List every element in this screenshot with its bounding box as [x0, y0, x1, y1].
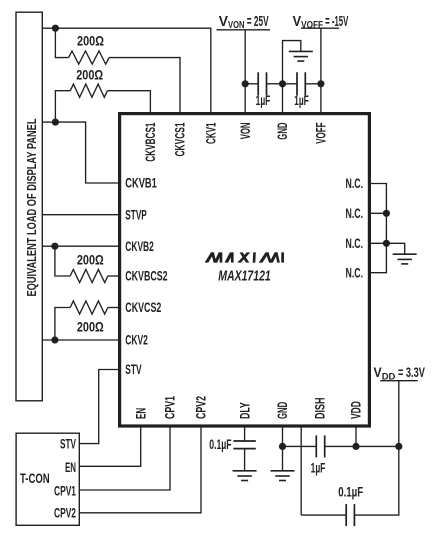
svg-text:CPV2: CPV2: [54, 506, 76, 521]
wire panel to junction CKVB1: [42, 121, 55, 123]
resistor R3 200ohm: [70, 269, 108, 282]
node junction CKVB2 net: [51, 243, 58, 250]
node VDD supply net: [395, 443, 402, 450]
VVDD underline: [380, 380, 418, 382]
svg-text:DISH: DISH: [312, 398, 327, 420]
ground (N.C. bus): [393, 254, 417, 264]
wire GND to top ground: [283, 41, 301, 84]
svg-text:= 25V: = 25V: [245, 14, 269, 30]
svg-text:CPV1: CPV1: [54, 483, 76, 498]
capacitor C2 1uF: [297, 72, 305, 95]
VVON underline: [216, 29, 270, 31]
VVOFF underline: [301, 27, 339, 29]
capacitor C4 1uF: [316, 435, 324, 457]
wire C3 to ground: [244, 449, 246, 471]
wire panel to CKV1 (top): [42, 28, 211, 113]
wire junction to CKVB1 pin: [55, 122, 119, 183]
svg-text:EN: EN: [65, 460, 76, 475]
wire CPV2 pin to T-CON: [79, 426, 201, 513]
node junction CKVB1 net: [52, 119, 59, 126]
capacitor C1 1uF: [258, 72, 266, 95]
svg-text:VON: VON: [238, 123, 253, 140]
wire R4 left lead to junction: [55, 308, 70, 341]
svg-text:1µF: 1µF: [294, 93, 309, 108]
svg-text:V: V: [374, 365, 382, 380]
wire CPV1 pin to T-CON: [79, 426, 170, 490]
svg-text:CKVBCS1: CKVBCS1: [143, 122, 158, 161]
node GND top net: [279, 80, 286, 87]
wire VDD supply down: [398, 381, 400, 447]
node junction CKV2 net: [51, 336, 58, 343]
ground (DLY): [233, 471, 257, 481]
svg-text:200Ω: 200Ω: [76, 68, 103, 83]
resistor R1 200ohm: [69, 51, 110, 64]
wire VDD pin stub: [355, 426, 357, 446]
svg-text:VOFF: VOFF: [314, 123, 329, 144]
svg-text:200Ω: 200Ω: [77, 252, 104, 267]
svg-text:N.C.: N.C.: [346, 176, 364, 191]
wire N.C. 3 stub: [369, 242, 386, 244]
wire C5 to VDD supply: [354, 446, 398, 515]
svg-text:V: V: [293, 14, 302, 30]
wire GND pin stub (bottom): [282, 426, 284, 446]
wire DISH pin down: [300, 426, 302, 515]
svg-text:STV: STV: [60, 436, 76, 451]
svg-text:200Ω: 200Ω: [77, 319, 104, 334]
svg-text:CKVB1: CKVB1: [125, 176, 157, 191]
wire C2 to VOFF node: [305, 83, 321, 85]
node VOFF net: [317, 80, 324, 87]
svg-text:VOFF: VOFF: [301, 20, 323, 31]
svg-text:CKVCS2: CKVCS2: [125, 300, 161, 315]
wire junction to resistor R1: [55, 28, 68, 57]
node GND bottom net: [279, 443, 286, 450]
svg-text:= 3.3V: = 3.3V: [395, 365, 425, 380]
wire R4 to CKVCS2 pin: [108, 307, 120, 309]
svg-text:CKV2: CKV2: [125, 333, 148, 348]
node N.C. bus junction 2: [383, 240, 390, 247]
resistor R2 200ohm: [70, 84, 107, 97]
svg-text:GND: GND: [275, 402, 290, 419]
wire EN pin to T-CON: [79, 426, 140, 466]
wire VON node to capacitor C1: [245, 83, 258, 85]
wire R1 to CKVCS1: [109, 58, 180, 114]
svg-text:CPV1: CPV1: [163, 396, 178, 419]
wire R2 to CKVBCS1: [107, 91, 150, 114]
node VON net: [242, 80, 249, 87]
capacitor C3 0.1uF: [233, 441, 255, 449]
IC U1 MAX17121 chip body: [120, 114, 370, 426]
T-CON box: [16, 433, 79, 525]
ground (top, GND pin): [289, 51, 313, 61]
svg-text:DLY: DLY: [237, 402, 252, 419]
svg-text:CKV1: CKV1: [204, 122, 219, 144]
svg-text:STVP: STVP: [125, 207, 147, 222]
wire R2 left lead to junction: [55, 91, 70, 122]
ground (GND pin bottom): [271, 471, 295, 481]
wire VDD node to supply node: [356, 445, 399, 447]
resistor R4 200ohm: [70, 301, 108, 314]
wire GND node to ground: [282, 446, 284, 470]
wire R3 to CKVBCS2 pin: [108, 275, 120, 277]
svg-text:N.C.: N.C.: [346, 265, 364, 280]
wire DLY pin to capacitor C3: [244, 426, 246, 441]
svg-text:CKVCS1: CKVCS1: [173, 122, 188, 156]
svg-text:0.1µF: 0.1µF: [338, 485, 363, 500]
svg-text:0.1µF: 0.1µF: [209, 437, 231, 452]
node junction top-left: [52, 25, 59, 32]
display panel equivalent load box: [16, 12, 42, 401]
svg-text:CPV2: CPV2: [194, 396, 209, 419]
node N.C. bus junction 1: [383, 210, 390, 217]
wire GND pin stub (top): [282, 84, 284, 114]
maxim logo: [205, 252, 284, 262]
wire GND node to capacitor C4: [283, 445, 317, 447]
svg-text:GND: GND: [275, 122, 290, 139]
wire N.C. bus to ground: [386, 243, 404, 254]
svg-text:VDD: VDD: [349, 401, 364, 419]
node VDD pin net: [352, 443, 359, 450]
svg-text:CKVBCS2: CKVBCS2: [125, 269, 167, 284]
svg-text:1µF: 1µF: [311, 461, 326, 476]
svg-text:N.C.: N.C.: [346, 236, 364, 251]
svg-text:EQUIVALENT LOAD OF DISPLAY PAN: EQUIVALENT LOAD OF DISPLAY PANEL: [24, 118, 39, 296]
svg-text:MAX17121: MAX17121: [218, 267, 271, 284]
wire panel to CKVB2 pin: [42, 245, 119, 247]
svg-text:STV: STV: [125, 362, 141, 377]
wire N.C. pins bus: [369, 184, 386, 273]
svg-text:N.C.: N.C.: [346, 206, 364, 221]
capacitor C5 0.1uF: [346, 504, 354, 526]
svg-text:V: V: [219, 14, 229, 30]
svg-text:CKVB2: CKVB2: [125, 239, 154, 254]
wire DISH to capacitor C5: [301, 514, 346, 516]
svg-text:200Ω: 200Ω: [77, 34, 104, 49]
wire N.C. 2 stub: [369, 212, 386, 214]
svg-text:T-CON: T-CON: [20, 471, 50, 486]
wire STV pin to T-CON: [79, 370, 119, 444]
wire C4 to VDD node: [325, 445, 356, 447]
wire panel to CKV2 pin: [42, 339, 119, 341]
svg-text:= -15V: = -15V: [323, 14, 348, 30]
wire VON supply to VON pin: [244, 30, 246, 114]
wire GND node to capacitor C2: [283, 83, 298, 85]
svg-text:EN: EN: [133, 408, 148, 419]
wire junction to resistor R3: [55, 246, 70, 276]
wire C1 to GND node: [267, 83, 283, 85]
wire panel to STVP pin: [42, 214, 119, 216]
wire VOFF supply to VOFF pin: [320, 28, 322, 113]
svg-text:1µF: 1µF: [256, 93, 271, 108]
